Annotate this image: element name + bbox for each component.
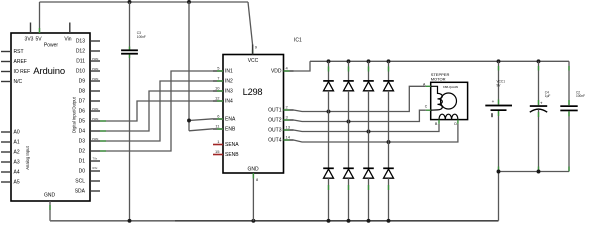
pin number labels L298 left [215,66,220,155]
node junction ground C3 [128,219,132,223]
svg-text:OUT2: OUT2 [268,118,282,124]
svg-text:11: 11 [215,124,220,129]
svg-text:RX▾: RX▾ [93,166,99,170]
wire D2 to IN1 [100,71,213,151]
svg-text:8: 8 [256,177,259,182]
node junction ground diode1 [327,219,331,223]
svg-text:D6: D6 [79,109,86,115]
diode D2 top (column 2 upper) [343,61,354,91]
pin number labels L298 right [255,45,291,183]
node junction OUT2 diode2 [347,120,351,124]
IC U2 Arduino body [11,33,98,201]
svg-text:9V: 9V [497,84,502,88]
node junction OUT4 diode4 [387,140,391,144]
svg-text:A0: A0 [14,130,20,136]
wire ground collector right [499,172,570,221]
svg-text:VDD: VDD [271,69,282,75]
svg-text:A3: A3 [14,160,20,166]
svg-text:OUT1: OUT1 [268,108,282,114]
svg-text:B: B [435,122,438,126]
svg-text:Analog Input: Analog Input [25,145,30,169]
wire OUT3 to motor B [294,124,440,132]
wire D5 to IN4 [100,101,213,121]
svg-text:5V: 5V [35,37,42,43]
svg-text:D0: D0 [79,169,86,175]
wire OUT2 to motor C [294,110,426,121]
svg-text:A1: A1 [14,140,20,146]
L298 top pin stub VCC pin9 [252,45,254,55]
svg-text:MOTOR: MOTOR [431,77,446,82]
svg-text:6: 6 [217,114,220,119]
diode D1 bottom (column 1 lower) [323,91,334,221]
wire VCC rail horizontal [310,60,569,62]
svg-text:13: 13 [286,125,291,130]
capacitor C2 100nF [560,61,585,171]
svg-text:GND: GND [44,193,56,199]
svg-text:D2: D2 [79,149,86,155]
svg-text:D12: D12 [76,49,85,55]
capacitor C3 100nF [121,2,146,221]
wire 5V riser to top rail [39,2,41,33]
node junction ground L298 [251,219,255,223]
motor pin B [435,120,439,127]
wire 5V top rail [40,1,249,3]
capacitor C4 1uF polarized [530,61,551,171]
diode D4 top (column 4 upper) [383,61,394,91]
svg-text:10: 10 [215,86,220,91]
motor winding A-C coil [431,86,443,110]
motor winding B-D coil [439,114,458,119]
node junction ENA/ENB tie [187,119,191,123]
L298 left pin stubs IN1-IN4 ENA ENB [213,71,223,129]
node junction OUT1 diode1 [327,110,331,114]
svg-text:D13: D13 [76,39,85,45]
diode D3 bottom (column 3 lower) [363,91,374,221]
Arduino left pin stubs RST AREF IOREF NC A0-A5 [1,52,11,183]
node junction VCC rail diode3 [367,59,371,63]
svg-text:Digital Input/Output: Digital Input/Output [72,96,77,133]
node junction top rail C3 [128,0,132,4]
diode D1 top (column 1 upper) [323,61,334,91]
node junction ground diode2 [347,219,351,223]
svg-text:ENB: ENB [225,127,236,133]
svg-text:D3: D3 [79,139,86,145]
svg-text:A5: A5 [14,180,20,186]
svg-text:+: + [492,99,495,104]
node junction ground diode4 [387,219,391,223]
diode D4 bottom (column 4 lower) [383,91,394,221]
svg-text:GND: GND [247,167,259,173]
wire VDD to VCC rail [294,61,311,71]
wire diagonal from top rail to L298 VCC pin 9 [248,2,253,55]
node junction top rail EN branch [187,0,191,4]
motor pin A [423,83,431,87]
svg-text:SCL: SCL [75,179,85,185]
svg-text:A4: A4 [14,170,20,176]
svg-text:N/C: N/C [14,79,23,85]
Arduino right pin stubs D13-SDA [90,41,100,191]
svg-text:1µF: 1µF [545,94,551,98]
svg-text:D8: D8 [79,89,86,95]
motor pin D [454,120,458,127]
wire OUT4 to motor D [294,124,458,142]
svg-text:15: 15 [215,149,220,154]
wire EN branch vertical [189,2,213,131]
svg-text:3V3: 3V3 [25,37,34,43]
svg-text:ENA: ENA [225,117,236,123]
svg-text:D11: D11 [76,59,85,65]
svg-text:OUT4: OUT4 [268,138,282,144]
svg-text:5: 5 [217,66,220,71]
svg-text:K88-QAA39: K88-QAA39 [443,85,458,89]
motor pin C [425,104,431,110]
Arduino top pin stubs 3V3 Vin [31,23,70,34]
L298 unconnected pin SENA [213,144,223,146]
svg-text:IN2: IN2 [225,79,233,85]
svg-text:D: D [454,122,457,126]
svg-text:D1: D1 [79,159,86,165]
svg-text:100nF: 100nF [576,94,585,98]
svg-text:AREF: AREF [14,59,27,65]
svg-text:IC1: IC1 [294,38,302,44]
node junction VCC rail diode1 [327,59,331,63]
svg-text:+: + [540,101,543,106]
diode D2 bottom (column 2 lower) [343,91,354,221]
node junction VCC rail diode4 [387,59,391,63]
svg-text:1: 1 [217,139,220,144]
svg-text:SENB: SENB [225,152,239,158]
svg-text:IN4: IN4 [225,99,233,105]
svg-text:SDA: SDA [75,189,86,195]
svg-text:4: 4 [286,66,289,71]
wire D3 to IN2 [100,81,213,141]
node junction VCC rail battery [497,59,501,63]
node junction VCC rail C4 [537,59,541,63]
svg-text:L298: L298 [243,87,263,97]
motor M1 stepper body [431,72,468,119]
node junction VCC rail diode2 [347,59,351,63]
svg-text:D9: D9 [79,79,86,85]
svg-text:D7: D7 [79,99,86,105]
L298 bottom pin stub GND pin8 [252,173,254,221]
svg-text:D4: D4 [79,129,86,135]
svg-text:Vin: Vin [64,37,71,43]
node junction ground diode3 [367,219,371,223]
svg-text:Arduino: Arduino [33,66,65,77]
wire D4 to IN3 [100,91,213,131]
IC IC1 L298 body [223,55,284,174]
diode D3 top (column 3 upper) [363,61,374,91]
wire Arduino GND to ground rail [49,201,51,221]
wire OUT1 to motor A [294,86,426,111]
svg-text:D5: D5 [79,119,86,125]
svg-text:Power: Power [44,43,59,49]
L298 unconnected pin SENB [213,154,223,156]
svg-text:IN3: IN3 [225,89,233,95]
svg-text:2: 2 [286,105,289,110]
svg-text:12: 12 [215,96,220,101]
svg-text:OUT3: OUT3 [268,128,282,134]
svg-text:IO REF: IO REF [14,69,31,75]
L298 right pin stubs VDD OUT1-OUT4 [284,71,294,140]
svg-text:9: 9 [255,45,258,50]
svg-text:D10: D10 [76,69,85,75]
node junction ground C4 [537,170,541,174]
wire ground bottom rail [50,220,499,222]
svg-text:A2: A2 [14,150,20,156]
svg-text:14: 14 [286,135,291,140]
battery VCC1 9V [485,61,512,171]
svg-text:7: 7 [217,76,220,81]
svg-text:TX▸: TX▸ [93,157,98,161]
svg-text:VCC: VCC [248,58,259,64]
svg-text:SENA: SENA [225,142,239,148]
node junction ground battery [497,170,501,174]
svg-text:IN1: IN1 [225,69,233,75]
svg-text:C: C [425,104,428,108]
svg-text:100nF: 100nF [137,35,146,39]
svg-text:RST: RST [14,49,24,55]
node junction OUT3 diode3 [367,130,371,134]
svg-text:3: 3 [286,115,289,120]
